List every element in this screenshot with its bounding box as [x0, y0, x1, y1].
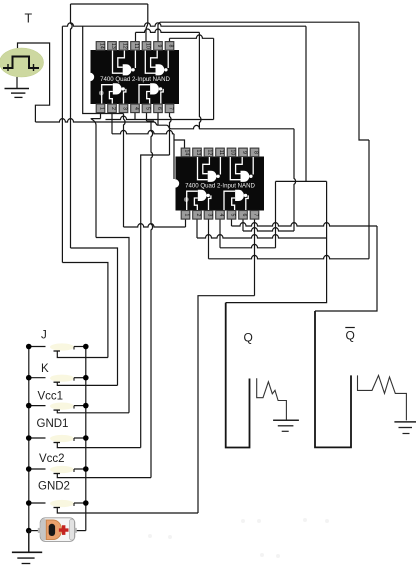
svg-text:3: 3: [207, 213, 213, 216]
svg-text:1: 1: [184, 213, 190, 216]
svg-text:Vcc1: Vcc1: [38, 391, 64, 403]
svg-text:5: 5: [145, 107, 151, 110]
svg-text:7400 Quad 2-Input NAND: 7400 Quad 2-Input NAND: [185, 183, 255, 190]
svg-text:10: 10: [145, 43, 151, 49]
svg-text:Vcc2: Vcc2: [39, 453, 65, 465]
svg-text:11: 11: [133, 43, 139, 48]
svg-text:12: 12: [207, 150, 213, 156]
svg-text:4: 4: [133, 107, 139, 110]
svg-text:7: 7: [253, 213, 259, 216]
svg-text:13: 13: [195, 150, 201, 156]
svg-text:10: 10: [230, 150, 236, 156]
svg-text:14: 14: [184, 150, 190, 156]
svg-text:Q: Q: [346, 329, 355, 343]
svg-text:6: 6: [156, 107, 162, 110]
svg-text:9: 9: [241, 151, 247, 154]
svg-text:4: 4: [218, 213, 224, 216]
svg-text:GND2: GND2: [38, 481, 70, 493]
svg-text:9: 9: [156, 44, 162, 47]
svg-text:13: 13: [110, 43, 116, 49]
svg-text:7400 Quad 2-Input NAND: 7400 Quad 2-Input NAND: [100, 76, 170, 83]
svg-text:K: K: [41, 363, 49, 375]
svg-text:14: 14: [99, 43, 105, 49]
svg-text:3: 3: [122, 107, 128, 110]
svg-text:J: J: [41, 330, 47, 342]
svg-text:7: 7: [168, 107, 174, 110]
svg-text:1: 1: [99, 107, 105, 110]
svg-text:8: 8: [168, 44, 174, 47]
svg-text:2: 2: [110, 107, 116, 110]
svg-text:11: 11: [218, 150, 224, 155]
svg-text:6: 6: [241, 213, 247, 216]
svg-text:Q: Q: [244, 331, 253, 345]
svg-text:8: 8: [253, 151, 259, 154]
svg-text:12: 12: [122, 43, 128, 49]
svg-text:5: 5: [230, 213, 236, 216]
svg-text:2: 2: [195, 213, 201, 216]
svg-text:T: T: [25, 12, 33, 26]
svg-text:GND1: GND1: [37, 418, 69, 430]
